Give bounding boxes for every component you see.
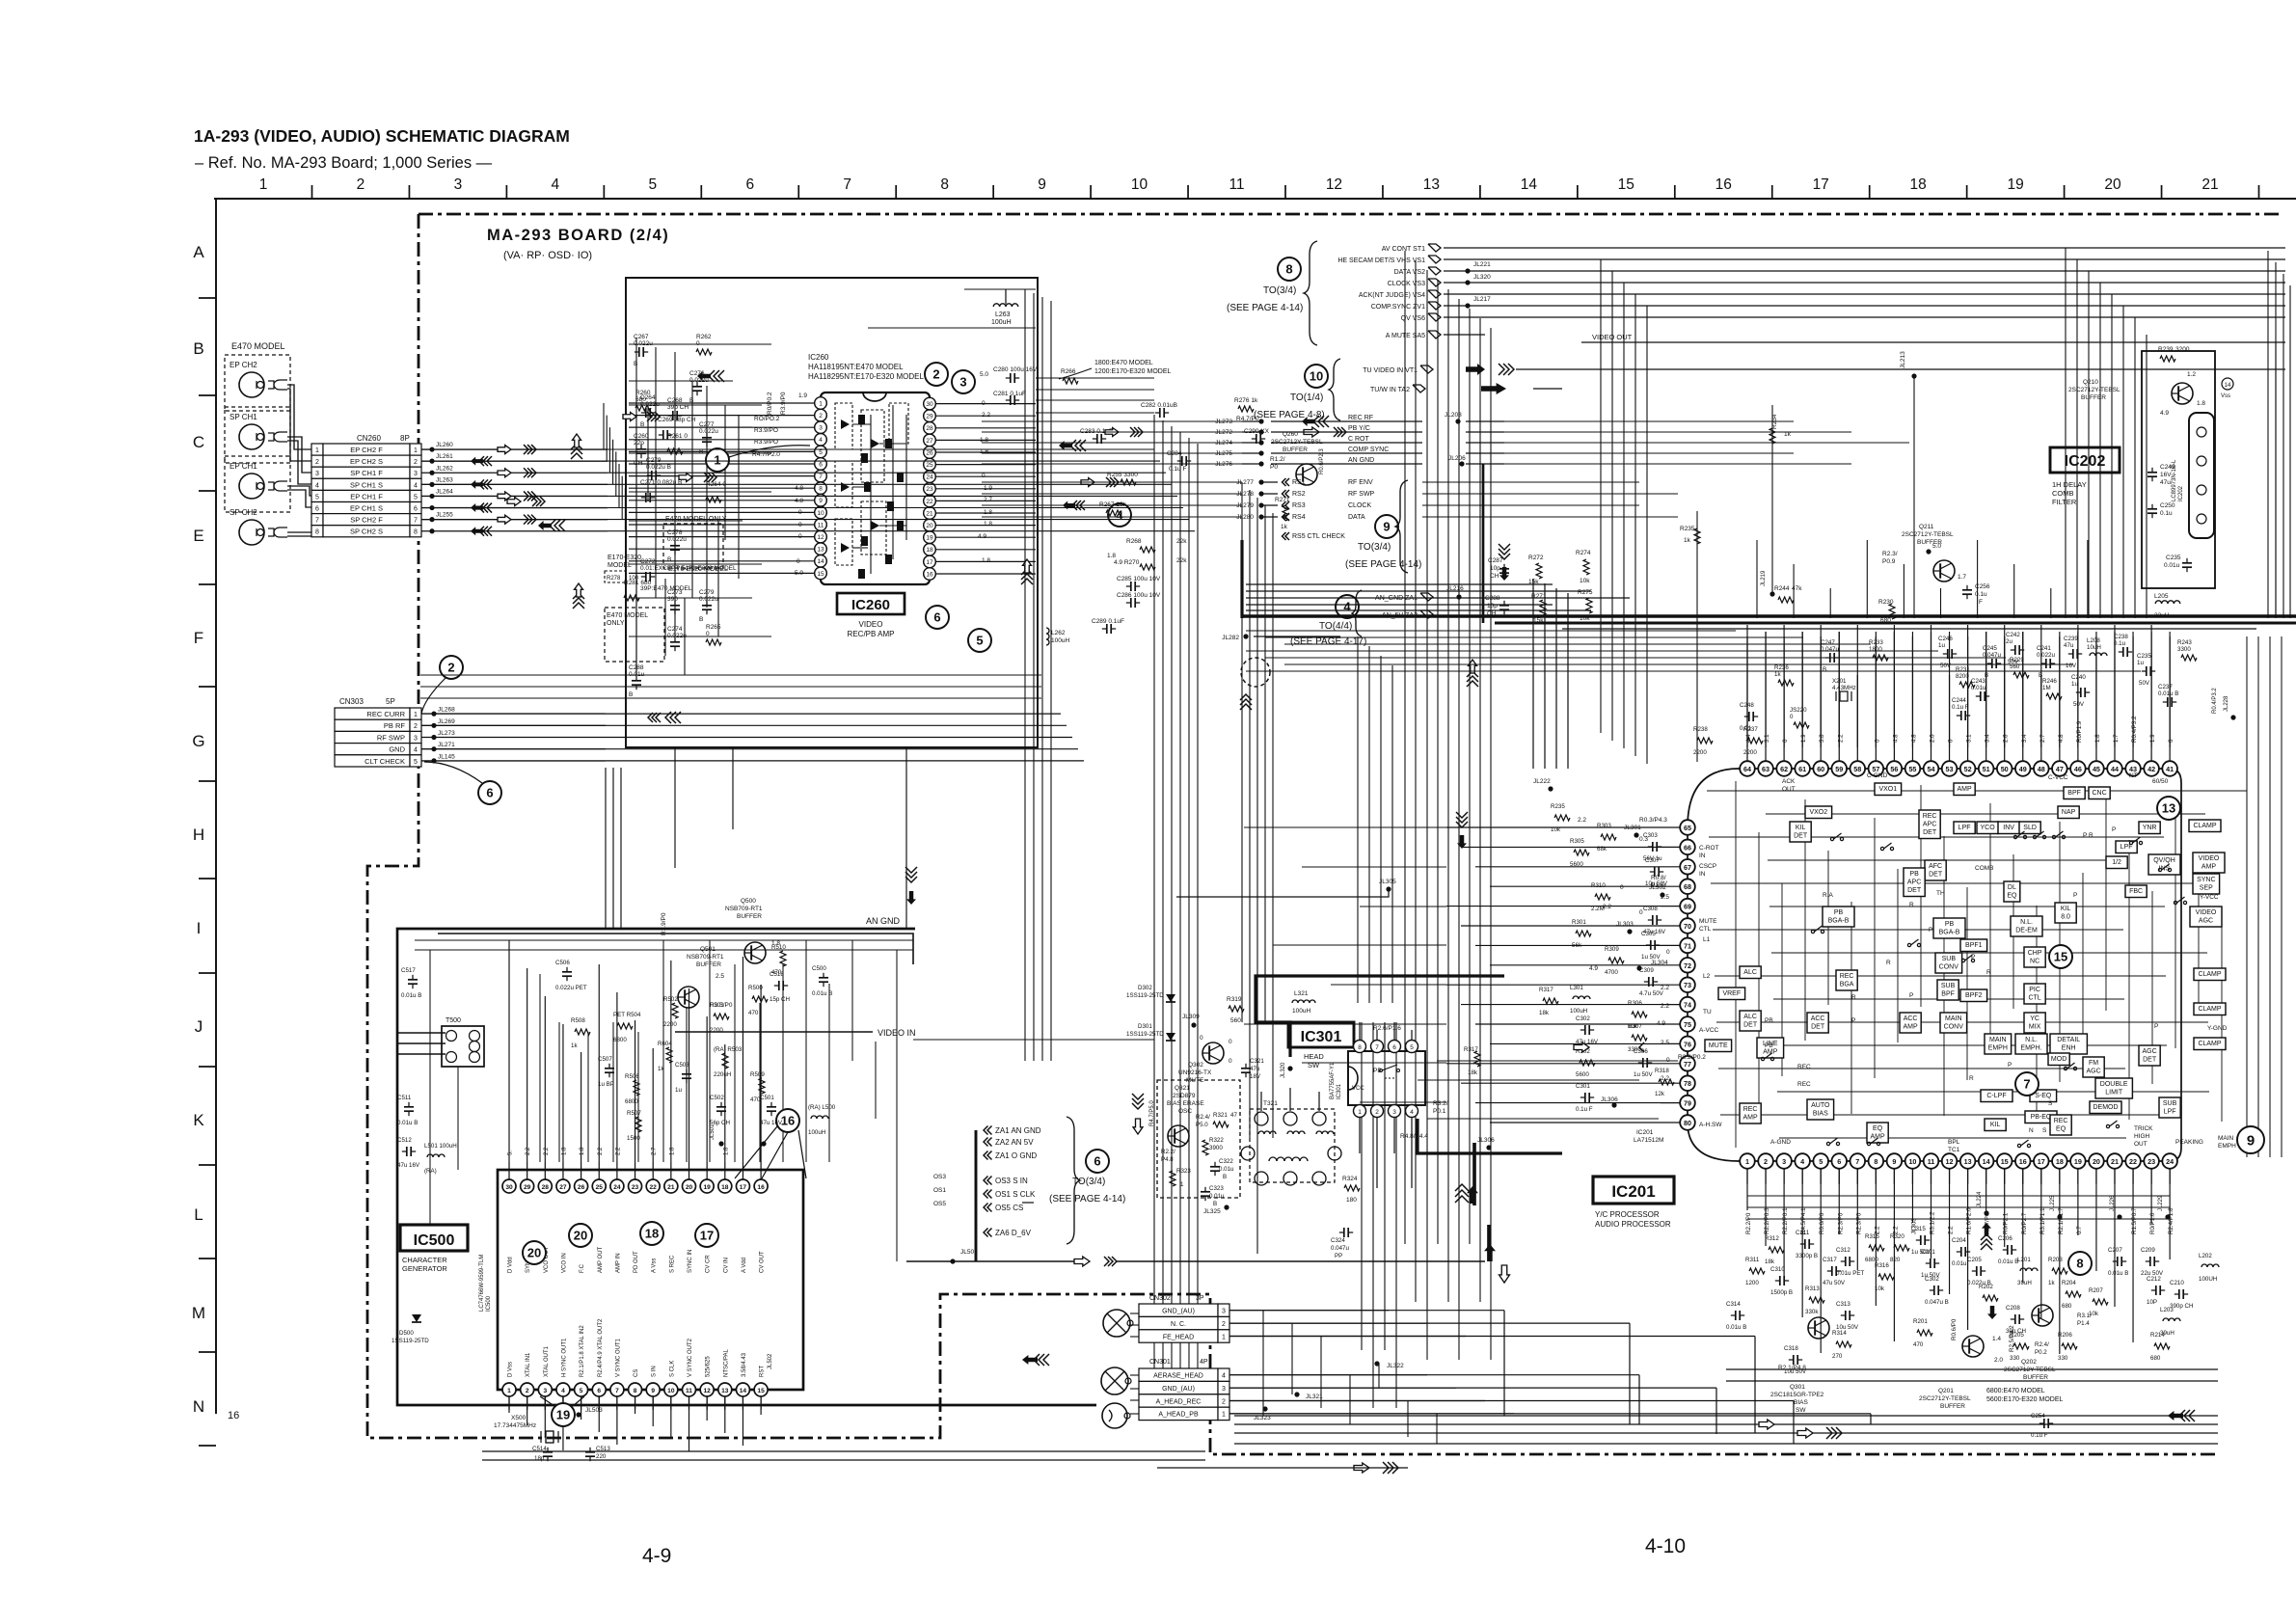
svg-text:Q201: Q201 (1938, 1388, 1954, 1394)
svg-text:26: 26 (926, 449, 933, 456)
svg-text:C247: C247 (1821, 639, 1835, 646)
svg-text:2.5: 2.5 (716, 973, 724, 980)
svg-text:COMP SYNC: COMP SYNC (1348, 447, 1389, 453)
block SLD (2019, 822, 2040, 834)
svg-text:30: 30 (505, 1184, 513, 1191)
svg-text:C-VCC: C-VCC (2048, 774, 2068, 781)
svg-text:16V: 16V (2066, 663, 2077, 669)
svg-text:ALC: ALC (1743, 1014, 1757, 1020)
page number 4-10 (1645, 1535, 1686, 1557)
svg-text:22k: 22k (1176, 538, 1187, 545)
arrow thick TU video (1466, 364, 1514, 375)
wires jacks to CN260 (287, 385, 317, 536)
svg-text:VIDEO IN: VIDEO IN (878, 1028, 916, 1038)
svg-text:R2.1/P4.8: R2.1/P4.8 (1778, 1365, 1806, 1371)
svg-text:63: 63 (1762, 765, 1769, 773)
svg-text:JL282: JL282 (1222, 635, 1239, 641)
svg-text:13: 13 (1423, 176, 1440, 193)
svg-text:11: 11 (818, 522, 824, 528)
svg-text:VCC: VCC (1352, 1086, 1364, 1092)
resistor R506 (625, 1073, 639, 1105)
svg-text:E: E (193, 527, 203, 545)
svg-text:100uH: 100uH (808, 1129, 825, 1136)
svg-text:INV: INV (2003, 825, 2014, 831)
AN GND corner wire (438, 934, 913, 964)
svg-text:2.7: 2.7 (652, 1147, 658, 1155)
svg-text:C511: C511 (397, 1095, 412, 1101)
svg-text:YC: YC (2030, 1015, 2039, 1022)
svg-text:Q210: Q210 (2083, 379, 2098, 386)
svg-text:R2.1/P1.8 XTAL IN2: R2.1/P1.8 XTAL IN2 (580, 1325, 585, 1377)
svg-text:6: 6 (1094, 1154, 1100, 1169)
R2.3/P0.9 label (1882, 551, 1898, 565)
resistor R204 (2062, 1280, 2081, 1310)
svg-text:28: 28 (926, 425, 933, 432)
resistor R323 (1170, 1168, 1191, 1188)
svg-text:AV CONT ST1: AV CONT ST1 (1382, 246, 1425, 253)
IC201 left pin labels (1639, 817, 1722, 1128)
vertical drop video out (2275, 342, 2277, 618)
svg-text:C235: C235 (2166, 555, 2181, 561)
svg-text:0: 0 (1229, 1039, 1232, 1045)
svg-text:P0.1: P0.1 (1433, 1108, 1446, 1115)
svg-text:BGA: BGA (1840, 982, 1854, 988)
svg-text:0.022u B: 0.022u B (646, 464, 671, 471)
JL221 label (1465, 261, 1491, 274)
block EQ AMP (1867, 1123, 1888, 1143)
svg-text:KIL: KIL (1796, 825, 1806, 831)
connector CN301 (1139, 1359, 1229, 1421)
svg-text:L301: L301 (1570, 985, 1583, 991)
svg-text:R3.9/PO: R3.9/PO (754, 439, 778, 446)
svg-text:4-9: 4-9 (642, 1545, 671, 1567)
JL323 dot (1254, 1406, 1271, 1421)
capacitor C302a (1576, 1015, 1599, 1045)
svg-text:53: 53 (1946, 765, 1954, 773)
svg-text:C274: C274 (667, 626, 683, 633)
svg-text:R3.1/: R3.1/ (2077, 1313, 2092, 1319)
svg-text:AMP: AMP (1743, 1115, 1759, 1122)
svg-text:54: 54 (1928, 765, 1935, 773)
svg-text:R501: R501 (710, 1002, 724, 1009)
capacitor C318 (1784, 1345, 1807, 1375)
svg-text:R: R (1986, 969, 1991, 976)
transistor Q211 (1902, 524, 1966, 582)
capacitor C513 (585, 1446, 610, 1461)
block DOUBLE LIMIT (2095, 1078, 2132, 1098)
svg-text:47u: 47u (2160, 479, 2171, 486)
svg-text:C260: C260 (634, 433, 649, 440)
svg-text:0: 0 (982, 473, 986, 479)
svg-text:C-ROT: C-ROT (1699, 845, 1719, 852)
port group 8 bracket (1304, 241, 1317, 345)
svg-text:P4.8: P4.8 (1161, 1156, 1174, 1163)
svg-text:1SS119-25TD: 1SS119-25TD (1126, 1031, 1164, 1038)
svg-text:0.022u: 0.022u (667, 536, 687, 543)
svg-text:CV CR: CV CR (706, 1255, 712, 1273)
svg-text:MAIN: MAIN (2218, 1135, 2234, 1142)
svg-text:NC: NC (2030, 959, 2039, 965)
leader circled1 (729, 446, 810, 457)
IC500 chip body (498, 1170, 803, 1390)
block ALC (1740, 966, 1761, 979)
svg-text:SEP: SEP (2200, 885, 2213, 892)
svg-text:R235: R235 (1680, 526, 1695, 532)
thick trace IC301 b (1418, 1119, 1562, 1153)
svg-text:C317: C317 (1823, 1257, 1837, 1263)
IC202 function label (2052, 480, 2087, 506)
svg-text:330: 330 (2058, 1355, 2068, 1362)
block VXO2 (1805, 806, 1832, 819)
svg-text:HIGH: HIGH (2134, 1133, 2150, 1140)
svg-text:3.58/4.43: 3.58/4.43 (742, 1352, 747, 1377)
svg-text:C318: C318 (1784, 1345, 1798, 1352)
svg-text:Q321: Q321 (1175, 1085, 1190, 1092)
T500 wires left (398, 1033, 446, 1054)
resistor R271 (1275, 497, 1290, 530)
svg-text:13: 13 (2162, 801, 2175, 816)
svg-text:5.0: 5.0 (795, 570, 803, 577)
svg-text:23: 23 (632, 1184, 639, 1191)
svg-text:42: 42 (2147, 765, 2155, 773)
capacitor C256 (1962, 583, 1990, 606)
capacitor C244 (1952, 697, 1970, 720)
svg-text:MUTE: MUTE (1186, 1077, 1204, 1084)
svg-text:C503: C503 (675, 1062, 689, 1069)
arrow right PB YC (1304, 427, 1346, 437)
block REC APC DET (1919, 810, 1940, 839)
capacitor C323 (1201, 1185, 1225, 1207)
svg-text:67: 67 (1684, 863, 1691, 872)
svg-text:2.2: 2.2 (615, 1147, 621, 1155)
svg-text:R506: R506 (625, 1073, 639, 1080)
resistor R237 (1743, 726, 1763, 756)
JL502 dot (761, 1141, 773, 1369)
capacitor C205 (1967, 1257, 1991, 1286)
svg-text:ZA6 D_6V: ZA6 D_6V (995, 1229, 1032, 1237)
svg-text:0: 0 (1229, 1058, 1232, 1065)
svg-text:3.4: 3.4 (1985, 734, 1991, 743)
transistor Q301 (1770, 1317, 1829, 1414)
resistor R500 (748, 985, 768, 1016)
svg-text:X500: X500 (511, 1415, 527, 1421)
svg-text:P: P (1909, 992, 1913, 999)
svg-text:1.8: 1.8 (982, 557, 990, 564)
horizontal wires from CN260 to bundle (608, 449, 1195, 531)
capacitor C501 (760, 1095, 783, 1126)
vertical drops top signals mid (1601, 259, 1647, 764)
block PIC CTL (2024, 984, 2045, 1004)
svg-text:PB: PB (1909, 871, 1919, 878)
IC201 interior horizontals (1707, 791, 2247, 1138)
svg-text:C243: C243 (1971, 678, 1985, 685)
svg-text:47: 47 (1230, 1112, 1237, 1119)
resistor R201 (1913, 1318, 1932, 1348)
svg-text:REC: REC (1743, 1106, 1758, 1113)
IC260 part number text (808, 353, 924, 381)
arrow chevrons right lower (507, 497, 545, 506)
arrow right mid IC260 (679, 473, 716, 482)
capacitor C264 (640, 394, 660, 428)
svg-text:EMPH.: EMPH. (2020, 1045, 2041, 1052)
IC301 label box (1288, 1022, 1354, 1047)
svg-text:AMP: AMP (1958, 786, 1973, 793)
diode D302 (1126, 985, 1175, 1002)
svg-text:C287: C287 (1488, 557, 1503, 564)
capacitor C246 (1938, 636, 1957, 669)
svg-text:60/50: 60/50 (2152, 778, 2169, 785)
svg-text:Q500: Q500 (741, 898, 756, 905)
svg-text:(RA) L500: (RA) L500 (808, 1104, 836, 1111)
resistor R507 (627, 1110, 641, 1142)
diode D301 (1126, 1023, 1175, 1041)
svg-text:0: 0 (798, 533, 802, 540)
IC201 top pin verticals tall (1747, 625, 2170, 747)
svg-text:9: 9 (1892, 1157, 1896, 1166)
arrow up thick at JL224 (1981, 1223, 1992, 1250)
svg-text:DET: DET (1923, 829, 1937, 836)
svg-text:S IN: S IN (652, 1366, 658, 1377)
resistor R264 (706, 481, 726, 502)
svg-text:NAP: NAP (2062, 809, 2076, 816)
svg-text:21: 21 (2111, 1157, 2119, 1166)
svg-text:B: B (193, 339, 203, 358)
R317 label (1464, 1046, 1480, 1076)
svg-text:EMPH: EMPH (1988, 1045, 2008, 1052)
capacitor C285 (1117, 576, 1161, 591)
bottom horizontal wires (1234, 1416, 2218, 1444)
circled 6 IC260 (926, 606, 949, 629)
resistor R267 (1099, 501, 1127, 516)
svg-text:3: 3 (414, 735, 418, 742)
svg-text:R314: R314 (1832, 1330, 1847, 1337)
JL328 dot (1203, 1204, 1229, 1215)
JL224 dot (1977, 1191, 1989, 1216)
svg-text:10: 10 (1310, 369, 1323, 384)
svg-text:C512: C512 (397, 1137, 412, 1144)
block PB BGA-B (1933, 918, 1965, 938)
svg-text:C517: C517 (401, 967, 416, 974)
svg-text:EP CH1: EP CH1 (230, 462, 257, 471)
thick down arrow x945b (1132, 1094, 1144, 1134)
port ZA1 0 GND (984, 1151, 1037, 1161)
svg-text:48: 48 (2038, 765, 2045, 773)
svg-text:P5.0: P5.0 (1196, 1122, 1208, 1128)
svg-text:OUT: OUT (1782, 786, 1796, 793)
IC201 top pin long wires up (1747, 632, 2170, 747)
svg-text:(SEE PAGE 4-14): (SEE PAGE 4-14) (1345, 559, 1421, 570)
svg-text:Q301: Q301 (1790, 1384, 1805, 1391)
svg-text:PB RF: PB RF (384, 721, 406, 730)
vertical drop JL213 (1913, 376, 1915, 618)
svg-text:8: 8 (315, 529, 319, 536)
svg-text:R311: R311 (1745, 1257, 1760, 1263)
svg-text:2: 2 (1222, 1398, 1226, 1405)
svg-text:18k: 18k (1539, 1010, 1550, 1016)
svg-text:AERASE_HEAD: AERASE_HEAD (1153, 1373, 1203, 1380)
svg-text:Q211: Q211 (1919, 524, 1934, 530)
vertical bundle x1420 (1358, 636, 1396, 1408)
svg-text:DATA: DATA (1348, 514, 1365, 521)
svg-text:R604: R604 (658, 1041, 672, 1047)
svg-text:ZA1 AN GND: ZA1 AN GND (995, 1126, 1041, 1135)
IC201 top pin values rotated (1745, 716, 2174, 743)
svg-text:COMB: COMB (1975, 865, 1994, 872)
svg-text:(RA) R503: (RA) R503 (714, 1046, 743, 1053)
svg-text:CLOCK VS3: CLOCK VS3 (1388, 281, 1425, 287)
svg-text:1M: 1M (2042, 685, 2051, 691)
svg-text:9: 9 (2247, 1132, 2255, 1149)
svg-text:RS4: RS4 (1292, 514, 1306, 521)
resistor R321 (1213, 1112, 1237, 1127)
svg-text:100UH: 100UH (2199, 1276, 2217, 1283)
svg-text:AMP OUT: AMP OUT (598, 1246, 604, 1273)
svg-text:5: 5 (819, 449, 823, 456)
svg-text:16: 16 (1715, 176, 1732, 193)
resistor R246 (2042, 678, 2062, 699)
IC201 left pin horizontals (1446, 827, 1661, 1123)
capacitor C268 (667, 397, 689, 420)
svg-text:18: 18 (2056, 1157, 2064, 1166)
capacitor C273 (667, 589, 683, 614)
svg-text:L501 100uH: L501 100uH (424, 1143, 457, 1150)
resistor R319 (1227, 996, 1244, 1024)
svg-text:3300: 3300 (2177, 646, 2191, 653)
svg-text:NSB709-RT1: NSB709-RT1 (725, 906, 763, 912)
svg-text:19: 19 (703, 1184, 711, 1191)
JL303 dot (1616, 921, 1634, 934)
svg-text:DET: DET (1811, 1024, 1825, 1031)
JL305 dot top (1379, 879, 1396, 892)
inductor L321 (1292, 990, 1315, 1015)
svg-text:JL262: JL262 (436, 465, 453, 472)
svg-text:62: 62 (1780, 765, 1788, 773)
inductor L201 (2017, 1257, 2038, 1286)
svg-text:R3.2/P0.2: R3.2/P0.2 (1678, 1054, 1706, 1061)
JL206 label (1448, 455, 1466, 467)
svg-text:EP CH2 S: EP CH2 S (350, 457, 383, 466)
svg-text:SUB: SUB (2163, 1100, 2177, 1107)
svg-text:IC201: IC201 (1611, 1182, 1655, 1201)
svg-text:12: 12 (1946, 1157, 1954, 1166)
svg-text:0.01u B: 0.01u B (812, 990, 832, 997)
svg-text:L263: L263 (995, 311, 1011, 318)
svg-text:R206: R206 (2058, 1332, 2072, 1339)
svg-text:1.8: 1.8 (723, 1147, 729, 1155)
svg-text:RF ENV: RF ENV (1348, 479, 1373, 486)
svg-text:5600: 5600 (1570, 861, 1583, 868)
transistor Q201 (1919, 1336, 2003, 1410)
svg-text:270: 270 (1832, 1353, 1843, 1360)
port TU/W IN TA2 (1370, 385, 1425, 393)
capacitor C269 (658, 417, 696, 440)
arrow thick TUW (1481, 383, 1506, 394)
resistor R233 (1869, 639, 1888, 661)
svg-text:0.022u PET: 0.022u PET (555, 985, 587, 991)
block REC EQ (2050, 1115, 2071, 1135)
IC500 area top rails (415, 940, 913, 950)
resistor R502 (663, 996, 678, 1028)
block MOD (2048, 1053, 2069, 1066)
svg-text:REC/PB AMP: REC/PB AMP (848, 630, 895, 638)
svg-text:5: 5 (1410, 1044, 1414, 1051)
svg-text:JL206: JL206 (1448, 455, 1466, 462)
svg-text:75: 75 (1684, 1020, 1691, 1029)
svg-text:C241: C241 (2037, 645, 2051, 652)
svg-text:1.8: 1.8 (2197, 400, 2205, 407)
svg-text:15: 15 (2001, 1157, 2009, 1166)
circled 2 near CN303 (440, 656, 463, 679)
resistor R262 (696, 334, 712, 355)
horizontals left of IC201 under bus (1246, 631, 2141, 671)
svg-text:5.0: 5.0 (1932, 543, 1941, 550)
svg-text:4: 4 (1800, 1157, 1804, 1166)
capacitor C274 (667, 626, 687, 651)
svg-text:T500: T500 (446, 1017, 461, 1024)
CN260 output wires with JL labels (421, 442, 608, 533)
svg-text:C305: C305 (1641, 931, 1656, 937)
svg-text:R0/P1.6: R0/P1.6 (2149, 1212, 2156, 1234)
block MAIN CONV (1940, 1013, 1967, 1033)
svg-text:CN301: CN301 (1149, 1359, 1171, 1366)
svg-text:DL: DL (2008, 884, 2016, 891)
svg-text:GND_(AU): GND_(AU) (1162, 1309, 1195, 1315)
svg-text:5.: 5. (508, 1150, 514, 1155)
svg-text:S: S (2048, 1100, 2053, 1107)
svg-text:3: 3 (1782, 1157, 1786, 1166)
svg-text:(SEE PAGE 4-17): (SEE PAGE 4-17) (1290, 636, 1366, 647)
block ACC AMP (1900, 1013, 1921, 1033)
svg-text:VCO IN: VCO IN (561, 1253, 567, 1273)
block DETAIL ENH (2050, 1034, 2087, 1054)
arrow chevrons up col2 (573, 583, 584, 609)
svg-text:4700: 4700 (1605, 969, 1618, 976)
svg-text:0.01u B: 0.01u B (2108, 1270, 2128, 1277)
block BPF (2064, 787, 2085, 799)
svg-text:JL273: JL273 (438, 730, 455, 737)
svg-text:R0.4/P3.2: R0.4/P3.2 (2212, 688, 2218, 714)
svg-text:V SYNC OUT2: V SYNC OUT2 (688, 1338, 693, 1377)
svg-text:R275: R275 (1578, 589, 1593, 596)
svg-text:1500: 1500 (627, 1135, 640, 1142)
svg-text:IC500: IC500 (414, 1232, 455, 1249)
svg-text:14: 14 (2225, 383, 2231, 389)
svg-text:M: M (192, 1304, 205, 1322)
svg-text:4.7u 50V: 4.7u 50V (1639, 990, 1664, 997)
resistor R303 (1597, 823, 1616, 853)
port OS3 S IN (933, 1174, 1028, 1185)
svg-text:C210: C210 (2170, 1280, 2184, 1286)
svg-text:JL228: JL228 (2224, 695, 2229, 712)
svg-text:C280 100u 16V: C280 100u 16V (993, 366, 1038, 373)
resistor R260 (635, 390, 651, 411)
IC260 left pin circles 1-15 (762, 397, 826, 580)
svg-text:R1.9/P0: R1.9/P0 (661, 912, 667, 935)
circled 6 below CN303 (478, 781, 501, 804)
svg-text:FM: FM (2089, 1060, 2098, 1067)
capacitor C212 (2147, 1276, 2165, 1306)
svg-text:8: 8 (1874, 1157, 1877, 1166)
svg-text:1: 1 (1180, 1181, 1184, 1188)
svg-text:R235: R235 (1551, 803, 1565, 810)
AN GND down wire (1482, 464, 1485, 623)
svg-text:C269 38p CH: C269 38p CH (658, 417, 696, 423)
svg-text:LPF: LPF (1958, 825, 1971, 831)
block N.L. DE-EM (2011, 916, 2042, 936)
svg-text:6: 6 (1392, 1044, 1396, 1051)
svg-text:APC: APC (1923, 822, 1936, 828)
svg-text:65: 65 (1684, 824, 1691, 832)
